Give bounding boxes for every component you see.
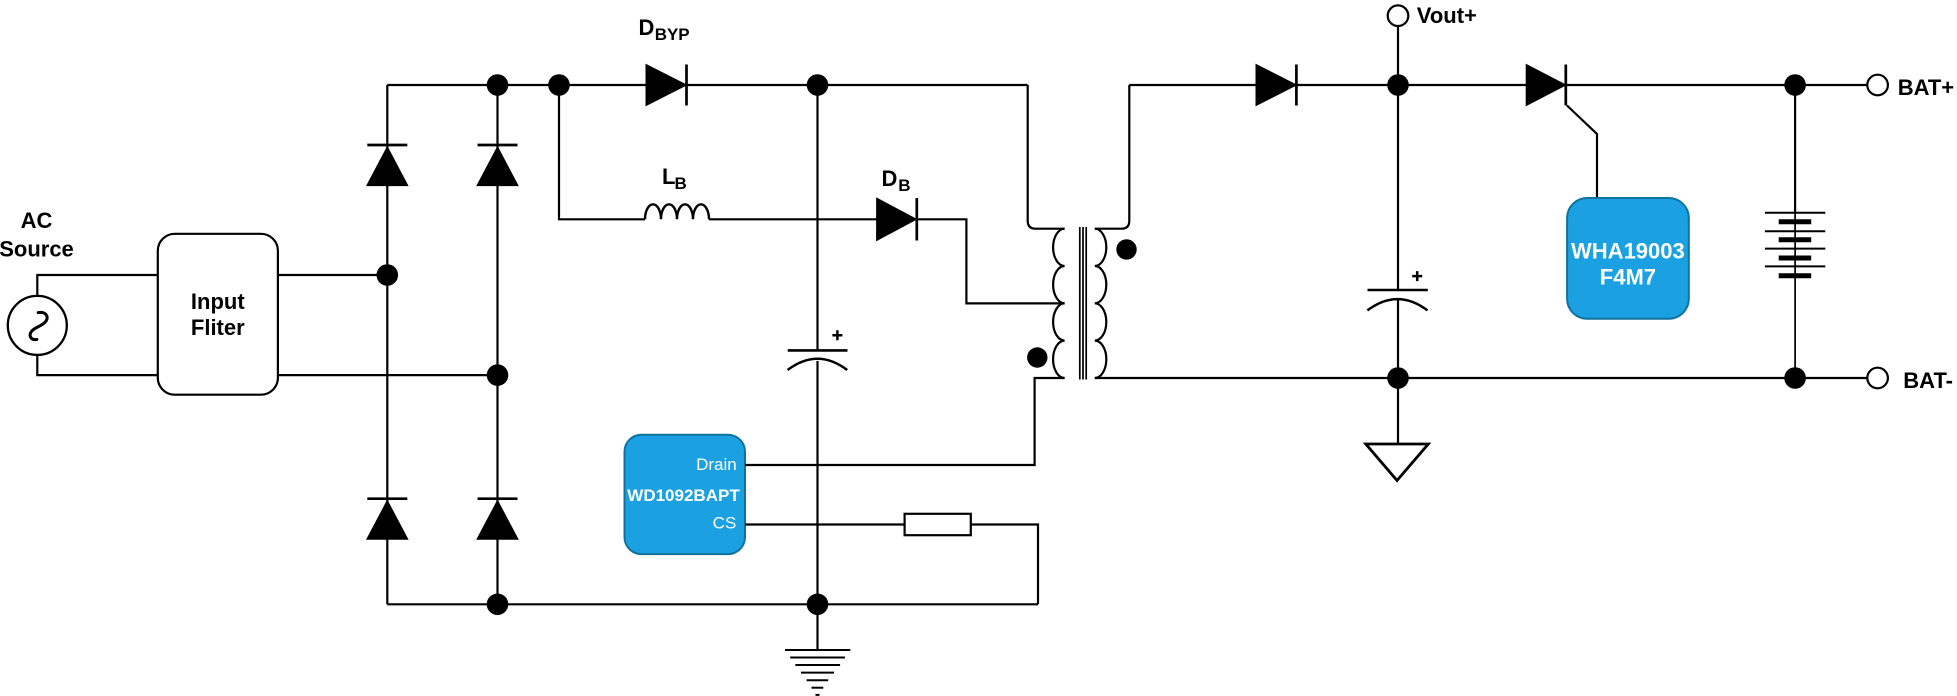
wire top rail right (1129, 84, 1868, 86)
svg-text:CS: CS (713, 513, 737, 532)
svg-text:BAT-: BAT- (1903, 368, 1953, 393)
junction dot bottom rail at ground (807, 594, 829, 616)
svg-text:D: D (639, 15, 655, 40)
terminal BAT+ (1867, 75, 1954, 100)
junction dot filter top at left leg (377, 264, 399, 286)
junction dot filter bottom at right leg (487, 364, 509, 386)
wire bridge right leg (496, 85, 498, 604)
diode DBYP bypass on top rail (646, 65, 687, 106)
svg-text:Source: Source (0, 237, 74, 262)
svg-text:WHA19003: WHA19003 (1571, 238, 1685, 263)
diode D4 bridge lower-right (477, 499, 518, 540)
battery BT1 (1765, 85, 1825, 378)
resistor R1 current sense (905, 514, 971, 535)
IC U1 WD1092BAPT (625, 435, 746, 554)
wire bridge left leg (386, 85, 388, 604)
label LB (662, 164, 687, 193)
wire resistor to bottom rail (971, 525, 1038, 605)
wire top rail branch down to LB (559, 85, 645, 219)
transformer primary polarity dot (1027, 347, 1047, 367)
junction dot output cap bottom (1387, 367, 1409, 389)
ground earth symbol (785, 604, 850, 695)
svg-text:AC: AC (21, 208, 53, 233)
junction dot battery bottom (1784, 367, 1806, 389)
wire top rail left (387, 84, 1027, 86)
diode DB (877, 198, 917, 240)
svg-text:Drain: Drain (696, 455, 737, 474)
svg-text:L: L (662, 164, 675, 189)
svg-text:BAT+: BAT+ (1898, 75, 1954, 100)
wire Vout+ stem (1397, 25, 1399, 85)
junction dot top rail at LB branch (548, 74, 570, 96)
wire top rail corner down to transformer primary top (1028, 85, 1065, 229)
wire filter bottom output to bridge right leg (278, 374, 498, 376)
wire AC top to filter (37, 275, 158, 296)
wire CS pin to resistor (745, 523, 905, 525)
diode D3 bridge lower-left (367, 499, 408, 540)
label AC Source (0, 208, 74, 262)
svg-text:D: D (882, 166, 898, 191)
AC source V1 (8, 296, 67, 355)
IC U2 WHA19003 F4M7 (1567, 198, 1689, 319)
svg-text:Input: Input (191, 289, 245, 314)
transformer T1 core (1080, 227, 1086, 380)
capacitor C1 bulk (788, 85, 848, 604)
svg-text:WD1092BAPT: WD1092BAPT (627, 486, 740, 505)
label DBYP (639, 15, 690, 44)
wire bottom rail right (1095, 377, 1868, 379)
thyristor Q1 charge control (1526, 65, 1597, 200)
junction dot battery top (1784, 74, 1806, 96)
svg-text:Vout+: Vout+ (1417, 3, 1477, 28)
label DB (882, 166, 911, 195)
ground chassis triangle (1366, 378, 1429, 481)
transformer T1 primary winding (1053, 229, 1065, 378)
input filter block (158, 234, 278, 395)
svg-text:B: B (675, 174, 687, 193)
transformer secondary polarity dot (1116, 239, 1136, 259)
diode D5 output rectifier (1256, 65, 1296, 106)
wire filter top output to bridge left leg (278, 274, 387, 276)
junction dot bottom rail at right leg (487, 594, 509, 616)
svg-text:Fliter: Fliter (191, 315, 245, 340)
wire Drain pin to transformer primary bottom (745, 378, 1065, 465)
terminal BAT- (1867, 368, 1953, 393)
wire DB to transformer mid tap (917, 219, 1065, 303)
transformer T1 secondary winding (1095, 229, 1107, 378)
capacitor C2 output (1367, 85, 1427, 378)
junction dot top rail at bridge right leg (487, 74, 509, 96)
junction dot top rail at C1 (807, 74, 829, 96)
svg-text:B: B (898, 176, 910, 195)
diode D2 bridge upper-right (477, 145, 518, 186)
diode D1 bridge upper-left (367, 145, 408, 186)
wire LB to DB (709, 218, 877, 220)
wire AC bottom to filter (37, 355, 158, 375)
junction dot Vout node (1387, 74, 1409, 96)
svg-text:F4M7: F4M7 (1600, 265, 1656, 290)
terminal Vout+ (1388, 3, 1477, 28)
wire transformer secondary top lead (1095, 85, 1130, 229)
inductor LB (645, 204, 709, 219)
svg-text:BYP: BYP (655, 25, 690, 44)
wire bottom rail (387, 603, 1038, 605)
